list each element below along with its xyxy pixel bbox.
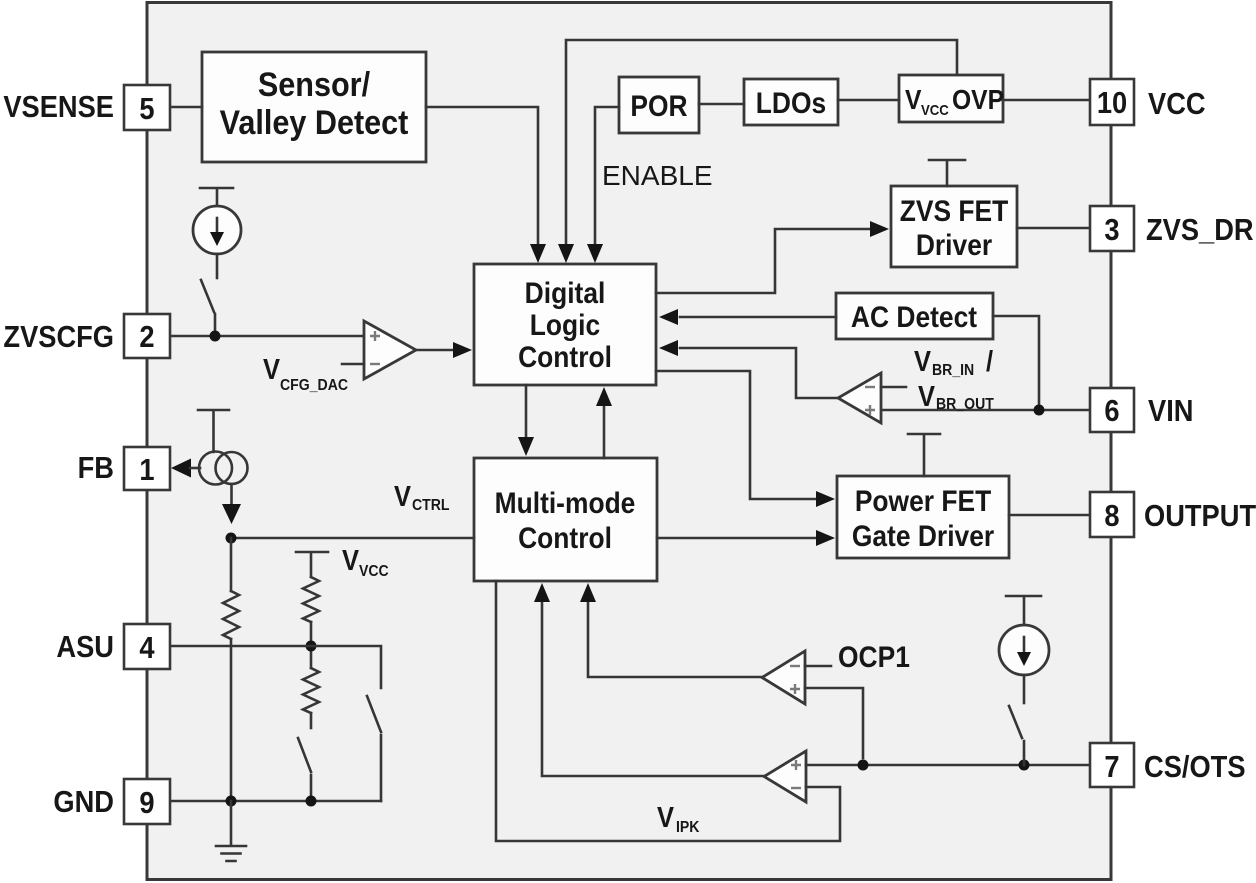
- block: Vvcc OVP: [899, 75, 1004, 122]
- svg-text:V: V: [394, 479, 412, 512]
- svg-text:ZVS_DR: ZVS_DR: [1146, 213, 1254, 247]
- wire: VBR comparator output to Digital Logic: [659, 340, 838, 398]
- resistor R-VCC1: [303, 577, 319, 622]
- junction on VIN net: [1034, 405, 1045, 416]
- svg-text:BR_IN: BR_IN: [932, 361, 974, 379]
- wire: Power FET Gate Driver to pin8 OUTPUT: [1009, 514, 1090, 517]
- comparator: OCP1: [762, 651, 805, 704]
- svg-text:Sensor/: Sensor/: [258, 66, 370, 104]
- junction CS net at current source tap: [1019, 760, 1030, 771]
- svg-text:IPK: IPK: [676, 818, 700, 836]
- junction GND rail left: [226, 796, 237, 807]
- wire: CFG comparator output to Digital Logic: [416, 342, 472, 358]
- comparator: peak current (VIPK): [764, 751, 806, 802]
- junction CS net at OCP1 tap: [858, 760, 869, 771]
- label: CS/OTS: [1144, 750, 1246, 784]
- wire: resistor to GND rail (crosses ASU): [230, 639, 233, 801]
- wire: OCP1 + input from CS net: [805, 688, 863, 758]
- wire: Multi-mode Control up to Digital Logic: [596, 387, 612, 458]
- pin 2 (ZVSCFG): [124, 314, 170, 358]
- svg-text:Gate Driver: Gate Driver: [852, 518, 994, 552]
- stub: VBR reference input: [881, 386, 906, 389]
- switch S-CFG: [201, 280, 215, 336]
- svg-text:Valley Detect: Valley Detect: [220, 104, 409, 142]
- switch S-ASU2: [367, 696, 381, 801]
- svg-text:5: 5: [139, 92, 154, 126]
- label: VCC: [1148, 87, 1206, 121]
- block: Sensor/Valley Detect U-SVD: [202, 52, 426, 162]
- power T-bar above ZVS FET Driver: [929, 160, 965, 186]
- junction ZVSCFG net: [210, 331, 221, 342]
- wire: VIN net (pin6 to comparator +): [881, 409, 1090, 412]
- wire: AC Detect to VIN node: [993, 316, 1039, 404]
- wire: POR to LDOs: [699, 103, 744, 106]
- svg-text:Control: Control: [518, 339, 612, 373]
- power T-bar Vvcc divider: [296, 552, 328, 577]
- svg-text:V: V: [905, 84, 922, 116]
- svg-text:V: V: [914, 344, 932, 377]
- junction ASU node: [306, 641, 317, 652]
- pin 9 (GND): [124, 779, 170, 824]
- wire: ASU net from pin4: [170, 646, 381, 688]
- svg-text:Multi-mode: Multi-mode: [495, 485, 636, 519]
- ground symbol: [216, 801, 246, 861]
- wire: Vvcc OVP to pin10 VCC: [1003, 99, 1090, 102]
- label: ZVS_DR: [1146, 213, 1254, 247]
- wire: top net from Vvcc OVP to Digital Logic: [558, 40, 957, 263]
- svg-text:OUTPUT: OUTPUT: [1144, 499, 1256, 533]
- svg-text:POR: POR: [630, 88, 687, 122]
- block: Power FET Gate Driver: [837, 476, 1009, 558]
- label: VIPK: [657, 800, 700, 836]
- label: ZVSCFG: [3, 320, 114, 354]
- current mirror at FB pin: [171, 452, 248, 525]
- resistor R-FB: [223, 591, 239, 639]
- svg-text:VSENSE: VSENSE: [3, 90, 114, 124]
- svg-text:2: 2: [139, 320, 154, 354]
- junction GND rail mid: [306, 796, 317, 807]
- svg-text:Logic: Logic: [530, 307, 600, 341]
- wire: ZVSCFG net (pin2 to comparator +): [170, 335, 364, 338]
- resistor R-VCC2: [303, 668, 319, 713]
- wire: CS/OTS net (pin7 to comparator +): [806, 764, 1090, 767]
- svg-text:CS/OTS: CS/OTS: [1144, 750, 1246, 784]
- label: VBR_IN /: [914, 344, 993, 379]
- svg-text:V: V: [657, 800, 675, 833]
- label: Vvcc: [342, 543, 389, 580]
- block: ZVS FET Driver: [891, 186, 1017, 267]
- svg-text:FB: FB: [78, 451, 114, 485]
- label: VCTRL: [394, 479, 450, 514]
- svg-text:ZVS FET: ZVS FET: [900, 193, 1009, 227]
- svg-text:V: V: [918, 379, 936, 412]
- svg-text:LDOs: LDOs: [756, 85, 826, 119]
- svg-text:V: V: [263, 352, 281, 385]
- pin 1 (FB): [124, 447, 170, 490]
- svg-text:Driver: Driver: [916, 227, 992, 261]
- block: LDOs: [744, 79, 838, 125]
- label: OUTPUT: [1144, 499, 1256, 533]
- svg-text:/: /: [986, 344, 993, 377]
- svg-text:VCC: VCC: [359, 562, 389, 580]
- pin 7 (CS/OTS): [1090, 743, 1134, 787]
- pin 8 (OUTPUT): [1090, 492, 1134, 537]
- label: VBR_OUT: [918, 379, 995, 413]
- stub: CFG_DAC reference input: [342, 363, 364, 366]
- junction VCTRL node: [226, 533, 237, 544]
- svg-text:7: 7: [1104, 750, 1119, 784]
- label: ASU: [56, 630, 114, 664]
- power T-bar above FB current mirror: [198, 410, 229, 452]
- label: VCFG_DAC: [263, 352, 348, 394]
- wire: VCTRL node down to resistor: [230, 538, 233, 591]
- block: POR: [619, 77, 699, 133]
- svg-text:ENABLE: ENABLE: [602, 160, 713, 191]
- current source I-CFG (above pin2): [193, 188, 241, 278]
- svg-text:GND: GND: [53, 785, 114, 819]
- IC body outline: [147, 3, 1111, 880]
- svg-text:OVP: OVP: [952, 84, 1004, 116]
- wire: pin5 to Sensor block: [170, 106, 202, 109]
- label: VIN: [1148, 394, 1193, 428]
- svg-text:CTRL: CTRL: [412, 496, 450, 514]
- svg-text:10: 10: [1097, 86, 1127, 120]
- pin 10 (VCC): [1090, 79, 1134, 125]
- block: Multi-mode Control: [474, 458, 657, 581]
- comparator: ZVS config (CFG_DAC): [364, 321, 416, 379]
- wire: Digital Logic to Power FET Gate Driver: [656, 371, 835, 507]
- svg-text:VCC: VCC: [1148, 87, 1206, 121]
- svg-text:3: 3: [1104, 213, 1119, 247]
- current source I-OTS (above pin7): [999, 596, 1049, 703]
- wire: Sensor output to Digital Logic (net SENSE): [426, 107, 546, 263]
- wire: OCP1 output to Multi-mode Control: [580, 583, 762, 677]
- svg-text:6: 6: [1104, 394, 1119, 428]
- wire: divider mid to ASU node: [310, 622, 313, 668]
- wire: VIPK feedback loop from Multi-mode Control: [496, 581, 840, 841]
- svg-text:OCP1: OCP1: [838, 639, 910, 673]
- wire: ENABLE net from POR to Digital Logic: [587, 107, 619, 263]
- pin 4 (ASU): [124, 624, 170, 669]
- wire: VCTRL net into Multi-mode Control: [231, 537, 474, 540]
- svg-text:BR_OUT: BR_OUT: [936, 395, 995, 413]
- svg-text:4: 4: [139, 631, 155, 665]
- switch S-OTS: [1009, 706, 1024, 765]
- block: Digital Logic Control: [474, 264, 656, 385]
- label: FB: [78, 451, 114, 485]
- wire: AC Detect to Digital Logic: [659, 309, 836, 325]
- wire: LDOs to Vvcc OVP: [838, 99, 899, 102]
- wire: Digital Logic down to Multi-mode Control: [518, 385, 534, 456]
- power T-bar above Power FET Gate Driver: [908, 434, 940, 476]
- wire: GND rail from pin9: [170, 800, 381, 803]
- pin 5 (VSENSE): [124, 85, 170, 130]
- svg-text:Digital: Digital: [525, 275, 606, 309]
- wire: Digital Logic to ZVS FET Driver: [656, 221, 889, 293]
- pin 6 (VIN): [1090, 388, 1134, 432]
- svg-text:AC Detect: AC Detect: [851, 299, 978, 333]
- wire: Multi-mode Control to Power FET Gate Driver: [657, 530, 835, 546]
- label: VSENSE: [3, 90, 114, 124]
- label: ENABLE: [602, 160, 713, 191]
- label: GND: [53, 785, 114, 819]
- comparator: brown-out sense (VBR): [838, 373, 881, 423]
- wire: peak comparator output to Multi-mode Control: [534, 583, 764, 776]
- svg-text:ZVSCFG: ZVSCFG: [3, 320, 114, 354]
- svg-text:1: 1: [139, 453, 154, 487]
- wire: ZVS FET Driver to pin3 ZVS_DR: [1017, 227, 1090, 230]
- svg-text:CFG_DAC: CFG_DAC: [280, 376, 348, 394]
- block: AC Detect: [836, 293, 993, 339]
- pin 3 (ZVS_DR): [1090, 206, 1134, 251]
- svg-text:VIN: VIN: [1148, 394, 1193, 428]
- svg-text:Control: Control: [518, 520, 612, 554]
- svg-text:9: 9: [139, 786, 154, 820]
- switch S-ASU1: [298, 738, 311, 801]
- wire: below R-VCC2: [310, 713, 313, 728]
- svg-text:VCC: VCC: [921, 101, 949, 118]
- svg-text:Power FET: Power FET: [855, 483, 991, 517]
- label: OCP1: [838, 639, 910, 673]
- svg-text:V: V: [342, 543, 360, 576]
- stub: OCP1 reference input: [805, 665, 831, 668]
- svg-text:8: 8: [1104, 499, 1119, 533]
- svg-text:ASU: ASU: [56, 630, 114, 664]
